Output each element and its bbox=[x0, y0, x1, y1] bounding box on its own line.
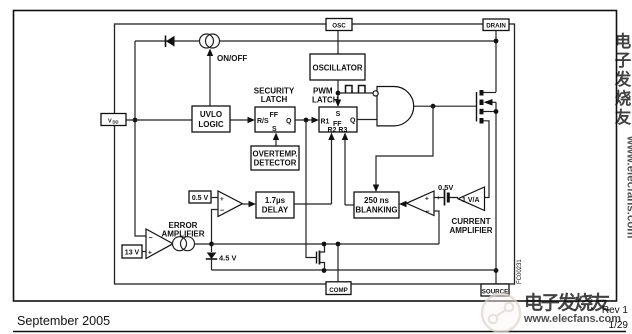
diode zener 4.5V bbox=[206, 244, 217, 270]
watermark logo circle bbox=[482, 294, 520, 332]
node: feedback node bbox=[209, 242, 214, 247]
svg-text:OSCILLATOR: OSCILLATOR bbox=[313, 64, 363, 73]
wire: current amp to blanking with left arrow bbox=[399, 201, 407, 207]
op-amp delay comparator bbox=[218, 191, 243, 217]
svg-text:1.7µs: 1.7µs bbox=[265, 196, 286, 205]
svg-text:Q: Q bbox=[350, 118, 356, 125]
svg-text:R2 R3: R2 R3 bbox=[328, 127, 348, 134]
wire: gate output to MOSFET gate bbox=[414, 105, 476, 107]
pin Vdd bbox=[101, 114, 126, 126]
svg-text:13 V: 13 V bbox=[125, 250, 140, 257]
wire: comparator output to delay with arrow bbox=[243, 201, 257, 207]
svg-text:R1: R1 bbox=[321, 119, 330, 126]
wire: R2 arrow up bbox=[328, 133, 334, 205]
op-amp error amplifier bbox=[146, 229, 173, 259]
wire: ON/OFF control with up arrow bbox=[207, 49, 213, 107]
svg-text:AMPLIFIER: AMPLIFIER bbox=[161, 230, 204, 239]
svg-text:OSC: OSC bbox=[332, 23, 346, 30]
wire: branch down to blanking with down arrow bbox=[373, 106, 433, 192]
current source ON/OFF bbox=[200, 34, 220, 48]
op-amp 1 V/A sense amplifier bbox=[458, 187, 485, 211]
block UVLO LOGIC U1 bbox=[192, 106, 230, 132]
wire: drain down bbox=[495, 31, 497, 93]
block 250ns BLANKING bbox=[354, 192, 399, 218]
node: Vdd junction bbox=[133, 118, 138, 123]
wire: UVLO to R/S with arrow bbox=[230, 117, 255, 123]
node: drain / supply junction bbox=[494, 39, 499, 44]
flip-flop PWM latch bbox=[319, 107, 357, 134]
battery 0.5V reference bbox=[434, 190, 458, 206]
pin 13 V reference box bbox=[122, 245, 142, 258]
node: source rail junction bbox=[494, 268, 499, 273]
wire: blanking output to R3 bbox=[345, 204, 354, 206]
svg-text:OVERTEMP.: OVERTEMP. bbox=[253, 150, 298, 159]
svg-text:1/29: 1/29 bbox=[609, 320, 629, 331]
node: Q branch bbox=[304, 118, 309, 123]
wire: feedback to minus input bbox=[434, 211, 439, 244]
svg-text:S: S bbox=[336, 111, 341, 118]
svg-text:DD: DD bbox=[113, 120, 119, 125]
flip-flop security latch bbox=[255, 107, 295, 133]
wire: OSC to oscillator bbox=[337, 31, 339, 55]
wire: internal supply line y=41 bbox=[135, 40, 496, 42]
svg-text:FC00231: FC00231 bbox=[517, 259, 523, 284]
svg-text:V: V bbox=[108, 119, 112, 125]
node: body junction bbox=[494, 109, 499, 114]
op-amp current comparator bbox=[407, 191, 435, 216]
svg-text:+: + bbox=[148, 250, 152, 257]
pin COMP bbox=[326, 282, 351, 295]
svg-text:LATCH: LATCH bbox=[312, 96, 339, 105]
pin DRAIN bbox=[483, 19, 509, 31]
node: clamp drain bbox=[322, 242, 327, 247]
wire: feedback rail y=244 bbox=[212, 243, 440, 245]
svg-text:+: + bbox=[437, 196, 441, 202]
svg-text:250 ns: 250 ns bbox=[364, 196, 389, 205]
svg-text:September 2005: September 2005 bbox=[17, 314, 110, 328]
svg-text:LOGIC: LOGIC bbox=[198, 120, 224, 129]
svg-text:−: − bbox=[149, 235, 153, 242]
wire: Q node down to clamp transistor gate bbox=[306, 120, 317, 258]
diode D1 bbox=[166, 36, 175, 48]
svg-text:S: S bbox=[272, 126, 277, 133]
svg-text:Rev 1: Rev 1 bbox=[602, 305, 629, 316]
svg-text:CURRENT: CURRENT bbox=[451, 217, 490, 226]
wire: internal left vertical x=135 bbox=[135, 41, 146, 236]
footer rule bbox=[13, 331, 626, 333]
block OSCILLATOR bbox=[310, 54, 365, 80]
svg-text:UVLO: UVLO bbox=[200, 110, 222, 119]
wire: comparator minus from feedback node bbox=[212, 210, 219, 243]
svg-text:PWM: PWM bbox=[313, 87, 333, 96]
node: gate output branch bbox=[431, 104, 436, 109]
wire: comp down bbox=[337, 244, 339, 282]
svg-text:−: − bbox=[426, 209, 430, 216]
svg-text:4.5 V: 4.5 V bbox=[219, 254, 237, 263]
wire: PWM Q to AND gate bbox=[357, 119, 377, 121]
transistor Q1 power MOSFET bbox=[477, 90, 497, 198]
wire: overtemp to S with up arrow bbox=[273, 133, 279, 147]
svg-text:R/S: R/S bbox=[257, 118, 269, 125]
block 1.7us DELAY bbox=[256, 192, 294, 218]
pin SOURCE bbox=[481, 284, 509, 296]
wire: 0.5V to comparator plus bbox=[211, 197, 218, 199]
current source: error amp output bbox=[173, 237, 195, 251]
wire: clock line with pulse symbol to gate bubble bbox=[338, 86, 373, 94]
pin OSC bbox=[326, 19, 352, 31]
svg-text:电子发烧友: 电子发烧友 bbox=[614, 31, 632, 127]
wire: error amp output to feedback node bbox=[195, 243, 212, 245]
node: comp branch bbox=[336, 242, 341, 247]
node: clamp source bbox=[322, 268, 327, 273]
svg-text:DETECTOR: DETECTOR bbox=[254, 159, 297, 168]
wire: source rail y=270 bbox=[212, 269, 497, 271]
svg-text:+: + bbox=[425, 196, 429, 203]
wire: R3 arrow up bbox=[342, 133, 348, 206]
wire: body-source sense down to SOURCE bbox=[495, 102, 497, 284]
wire: Vdd to UVLO bbox=[126, 119, 192, 121]
pin 0.5 V reference box bbox=[189, 191, 211, 203]
IC boundary box bbox=[115, 24, 515, 284]
svg-text:+: + bbox=[220, 196, 224, 203]
svg-text:ON/OFF: ON/OFF bbox=[217, 54, 247, 63]
svg-text:电子发烧友: 电子发烧友 bbox=[524, 291, 610, 314]
wire: latch Q to PWM R1 with arrow bbox=[295, 117, 319, 123]
svg-text:1 V/A: 1 V/A bbox=[462, 197, 480, 204]
svg-text:FF: FF bbox=[270, 112, 279, 119]
svg-text:BLANKING: BLANKING bbox=[355, 206, 397, 215]
svg-text:DRAIN: DRAIN bbox=[486, 23, 506, 30]
svg-text:DELAY: DELAY bbox=[262, 206, 289, 215]
svg-text:0.5 V: 0.5 V bbox=[192, 195, 209, 202]
svg-text:0.5V: 0.5V bbox=[438, 183, 453, 192]
wire: oscillator to PWM latch S with down arrow bbox=[335, 80, 341, 107]
wire: delay output to R2 bbox=[294, 203, 332, 205]
svg-text:AMPLIFIER: AMPLIFIER bbox=[449, 226, 492, 235]
block OVERTEMP DETECTOR bbox=[251, 146, 299, 170]
node: clock branch bbox=[336, 91, 341, 96]
svg-text:COMP: COMP bbox=[329, 287, 348, 294]
svg-text:−: − bbox=[452, 195, 456, 202]
svg-text:Q: Q bbox=[286, 118, 292, 125]
wire: 13V to plus input bbox=[142, 251, 146, 253]
svg-text:LATCH: LATCH bbox=[261, 95, 288, 104]
transistor Q2 clamp bbox=[317, 244, 325, 271]
svg-text:www.elecfans.com: www.elecfans.com bbox=[625, 135, 632, 238]
gate U2 AND bbox=[373, 87, 414, 126]
svg-text:−: − bbox=[220, 208, 224, 215]
